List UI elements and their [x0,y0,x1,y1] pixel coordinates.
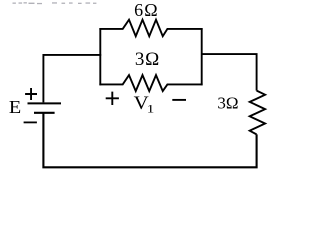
wire: feed from battery top to parallel combination [43,55,101,103]
battery E long plate (+) [28,102,62,104]
cropped text fragments (bottoms of previous caption line) [13,2,97,4]
wire: output from parallel combination to right branch [202,54,257,91]
left bar of parallel combination [99,28,101,85]
plus sign at battery [25,88,37,100]
battery E short plate (-) [34,112,55,114]
wire: battery bottom, bottom return, right riser lower [43,113,256,167]
svg-text:3Ω: 3Ω [135,49,160,70]
minus sign of V1 [172,99,186,101]
resistor 3ohm right branch vertical zigzag [250,91,265,135]
svg-text:E: E [9,98,21,118]
svg-text:1: 1 [147,102,155,115]
svg-text:6Ω: 6Ω [134,0,159,20]
svg-text:3Ω: 3Ω [217,94,238,113]
plus sign of V1 [106,92,119,105]
resistor 6ohm top branch zigzag [99,20,202,37]
minus sign at battery [24,121,37,123]
right bar of parallel combination [201,28,203,85]
resistor 3ohm middle branch zigzag [99,75,202,91]
